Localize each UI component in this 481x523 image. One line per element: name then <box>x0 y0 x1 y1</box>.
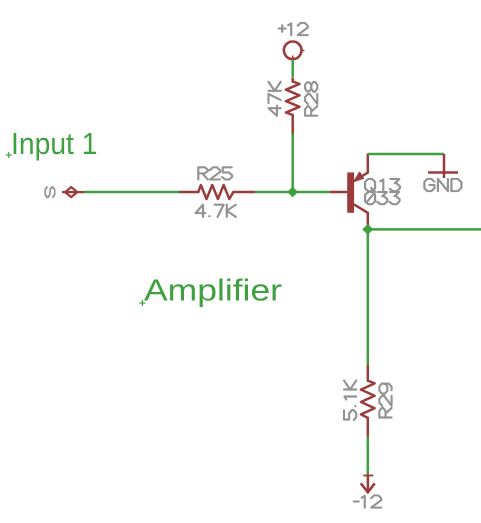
label +12 <box>279 23 308 35</box>
label R25 <box>198 167 232 179</box>
wire S to R25 <box>84 191 181 194</box>
junction B <box>362 224 373 235</box>
wire top to GND <box>443 154 446 178</box>
svg-text:Amplifier: Amplifier <box>144 273 282 308</box>
label R29 <box>379 384 391 418</box>
power -12 <box>361 476 375 493</box>
label 033 <box>365 192 399 204</box>
wire +12 to R28 <box>291 60 294 77</box>
label 5.1K <box>344 381 356 421</box>
label S <box>45 187 54 197</box>
origin cross Amplifier <box>139 300 145 306</box>
wire junction B to R29 <box>367 229 370 366</box>
power +12 <box>284 42 305 61</box>
label -12 <box>354 495 382 507</box>
junction A <box>287 187 298 198</box>
origin cross Input 1 <box>6 152 12 158</box>
pin S <box>62 187 85 197</box>
label 47K <box>268 82 280 116</box>
svg-text:Input 1: Input 1 <box>11 126 98 161</box>
wire R28 to junction A <box>291 134 294 193</box>
wire emitter top <box>368 153 444 156</box>
wire R29 to -12 <box>367 437 370 477</box>
resistor R28 <box>286 79 300 135</box>
label 4.7K <box>196 205 236 217</box>
wire collector out right <box>368 228 481 231</box>
label R28 <box>305 82 317 116</box>
resistor R29 <box>361 366 375 438</box>
ground GND <box>428 171 458 174</box>
label Q13 <box>365 179 400 192</box>
label GND <box>424 179 461 191</box>
transistor Q13 <box>330 154 368 228</box>
resistor R25 <box>180 185 255 199</box>
wire R25 to Q13 base <box>255 191 331 194</box>
